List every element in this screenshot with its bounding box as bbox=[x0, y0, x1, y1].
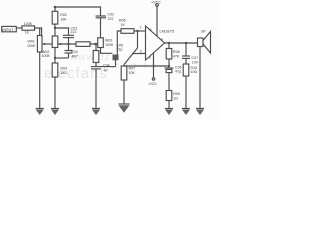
potentiometer W02 100K bbox=[52, 36, 58, 48]
svg-text:1Ω: 1Ω bbox=[173, 96, 178, 100]
svg-text:47K: 47K bbox=[173, 54, 180, 58]
node output junction 2 bbox=[185, 42, 187, 44]
svg-text:100K: 100K bbox=[42, 54, 51, 58]
wire R01 to W01 wiper bbox=[35, 28, 42, 44]
resistor R07 10K bbox=[123, 65, 125, 67]
wire R02 to W02 bbox=[54, 24, 56, 36]
wire diagonal to R07 bbox=[124, 48, 138, 65]
svg-text:R08: R08 bbox=[173, 50, 180, 54]
wiper arrow W02 bbox=[58, 43, 61, 46]
svg-text:100K: 100K bbox=[105, 43, 114, 47]
resistor R01 100K bbox=[22, 26, 35, 30]
svg-text:R06: R06 bbox=[119, 19, 126, 23]
svg-text:10K: 10K bbox=[129, 71, 136, 75]
svg-text:222: 222 bbox=[71, 30, 77, 34]
svg-text:1µ: 1µ bbox=[104, 68, 108, 72]
resistor R04 4K7 bbox=[76, 42, 90, 47]
svg-text:1K: 1K bbox=[121, 23, 126, 27]
wiper arrow W01 bbox=[43, 43, 46, 45]
wire R07 to ground bbox=[123, 80, 125, 104]
potentiometer W01 100K bbox=[37, 36, 42, 53]
wire C05 to R06 bbox=[117, 31, 121, 55]
svg-text:222: 222 bbox=[108, 17, 114, 21]
speaker SP bbox=[198, 29, 211, 108]
wire signal bus left bbox=[45, 43, 52, 45]
op-amp U1 LM1875 bbox=[140, 26, 175, 60]
resistor R02 10K bbox=[52, 11, 58, 24]
svg-text:10Ω: 10Ω bbox=[191, 70, 198, 74]
capacitor C07 104 bbox=[182, 43, 198, 64]
svg-text:1K2: 1K2 bbox=[61, 71, 67, 75]
ground bbox=[196, 109, 204, 116]
wire node to C3 top bbox=[55, 28, 69, 35]
svg-text:4K7: 4K7 bbox=[72, 54, 78, 58]
wire R05 bottom bbox=[95, 63, 97, 67]
svg-text:R04: R04 bbox=[71, 50, 78, 54]
capacitor C04 1µ bbox=[91, 64, 110, 109]
watermark bbox=[44, 52, 157, 82]
svg-text:1K: 1K bbox=[25, 31, 30, 35]
wire output bbox=[165, 42, 198, 44]
wire R06 to op-amp pin1 bbox=[134, 30, 146, 32]
node top bus junction bbox=[54, 6, 57, 9]
node feedback junction bbox=[136, 30, 138, 32]
input terminal INPUT bbox=[2, 26, 17, 31]
wire W01 top lead bbox=[39, 28, 41, 36]
svg-text:R09: R09 bbox=[173, 92, 180, 96]
ground bbox=[36, 109, 44, 116]
wire R09 to ground bbox=[168, 101, 170, 109]
svg-text:INPUT: INPUT bbox=[2, 28, 14, 32]
svg-text:1: 1 bbox=[140, 26, 142, 30]
wire R08 to node bbox=[168, 59, 170, 66]
svg-text:LM1875: LM1875 bbox=[160, 29, 175, 34]
svg-text:47µ: 47µ bbox=[175, 70, 181, 74]
wire feedback bbox=[124, 65, 169, 67]
capacitor C05 22µ electrolytic bbox=[101, 44, 123, 67]
svg-text:104: 104 bbox=[192, 60, 198, 64]
ground bbox=[51, 109, 59, 116]
svg-text:R07: R07 bbox=[129, 67, 136, 71]
svg-text:SP: SP bbox=[201, 29, 206, 33]
svg-text:2: 2 bbox=[140, 49, 142, 53]
wire input to R01 bbox=[16, 27, 22, 29]
svg-text:-VCC: -VCC bbox=[148, 82, 157, 86]
resistor R10 10R bbox=[185, 58, 187, 64]
ground bbox=[92, 109, 100, 116]
ground bbox=[182, 109, 190, 116]
wire W02 bottom bbox=[54, 48, 56, 64]
+VCC terminal bbox=[151, 0, 161, 36]
node C4 junction bbox=[67, 43, 69, 45]
node feedback C06 junction bbox=[168, 65, 170, 67]
wire W03 bottom bbox=[101, 48, 113, 54]
svg-text:4: 4 bbox=[161, 38, 163, 42]
svg-text:R03: R03 bbox=[61, 67, 68, 71]
resistor R09 1R bbox=[166, 91, 172, 101]
svg-text:3: 3 bbox=[149, 56, 151, 60]
wire W01 bottom to ground bbox=[39, 52, 41, 109]
capacitor C4 coupling bbox=[65, 44, 73, 58]
wire top feedback bus bbox=[55, 7, 101, 16]
svg-text:5: 5 bbox=[150, 28, 152, 32]
wire R03 to ground bbox=[54, 77, 56, 109]
-VCC terminal bbox=[148, 53, 157, 86]
wire junction down bbox=[137, 31, 139, 48]
resistor R05 bbox=[95, 44, 97, 51]
wire junction down to R02 bbox=[54, 7, 56, 11]
capacitor C06 47µ electrolytic bbox=[165, 65, 182, 90]
svg-text:R02: R02 bbox=[60, 13, 67, 17]
resistor R08 47K bbox=[168, 43, 170, 49]
svg-text:10K: 10K bbox=[60, 17, 67, 21]
wire R10 to ground bbox=[185, 76, 187, 109]
svg-text:C07: C07 bbox=[192, 56, 199, 60]
svg-text:100K: 100K bbox=[24, 22, 33, 26]
svg-text:100K: 100K bbox=[27, 44, 36, 48]
node R05 junction bbox=[95, 43, 97, 45]
resistor R06 1K bbox=[121, 29, 134, 34]
ground bbox=[165, 109, 173, 116]
resistor R03 1K2 bbox=[52, 63, 58, 77]
wire op-amp pin2 bbox=[132, 53, 146, 55]
ground big bbox=[119, 104, 130, 113]
node output junction 1 bbox=[168, 42, 170, 44]
svg-text:R10: R10 bbox=[191, 66, 198, 70]
node C3 tap bbox=[54, 27, 56, 29]
wire node to C4 bottom bbox=[55, 57, 69, 59]
wiper arrow W03 bbox=[95, 43, 98, 46]
capacitor C02 222 bbox=[96, 13, 114, 38]
capacitor C3 222 bbox=[63, 27, 77, 45]
potentiometer W03 100K bbox=[98, 38, 104, 48]
wire signal bus right bbox=[58, 43, 96, 45]
node below W02 bbox=[54, 57, 56, 59]
